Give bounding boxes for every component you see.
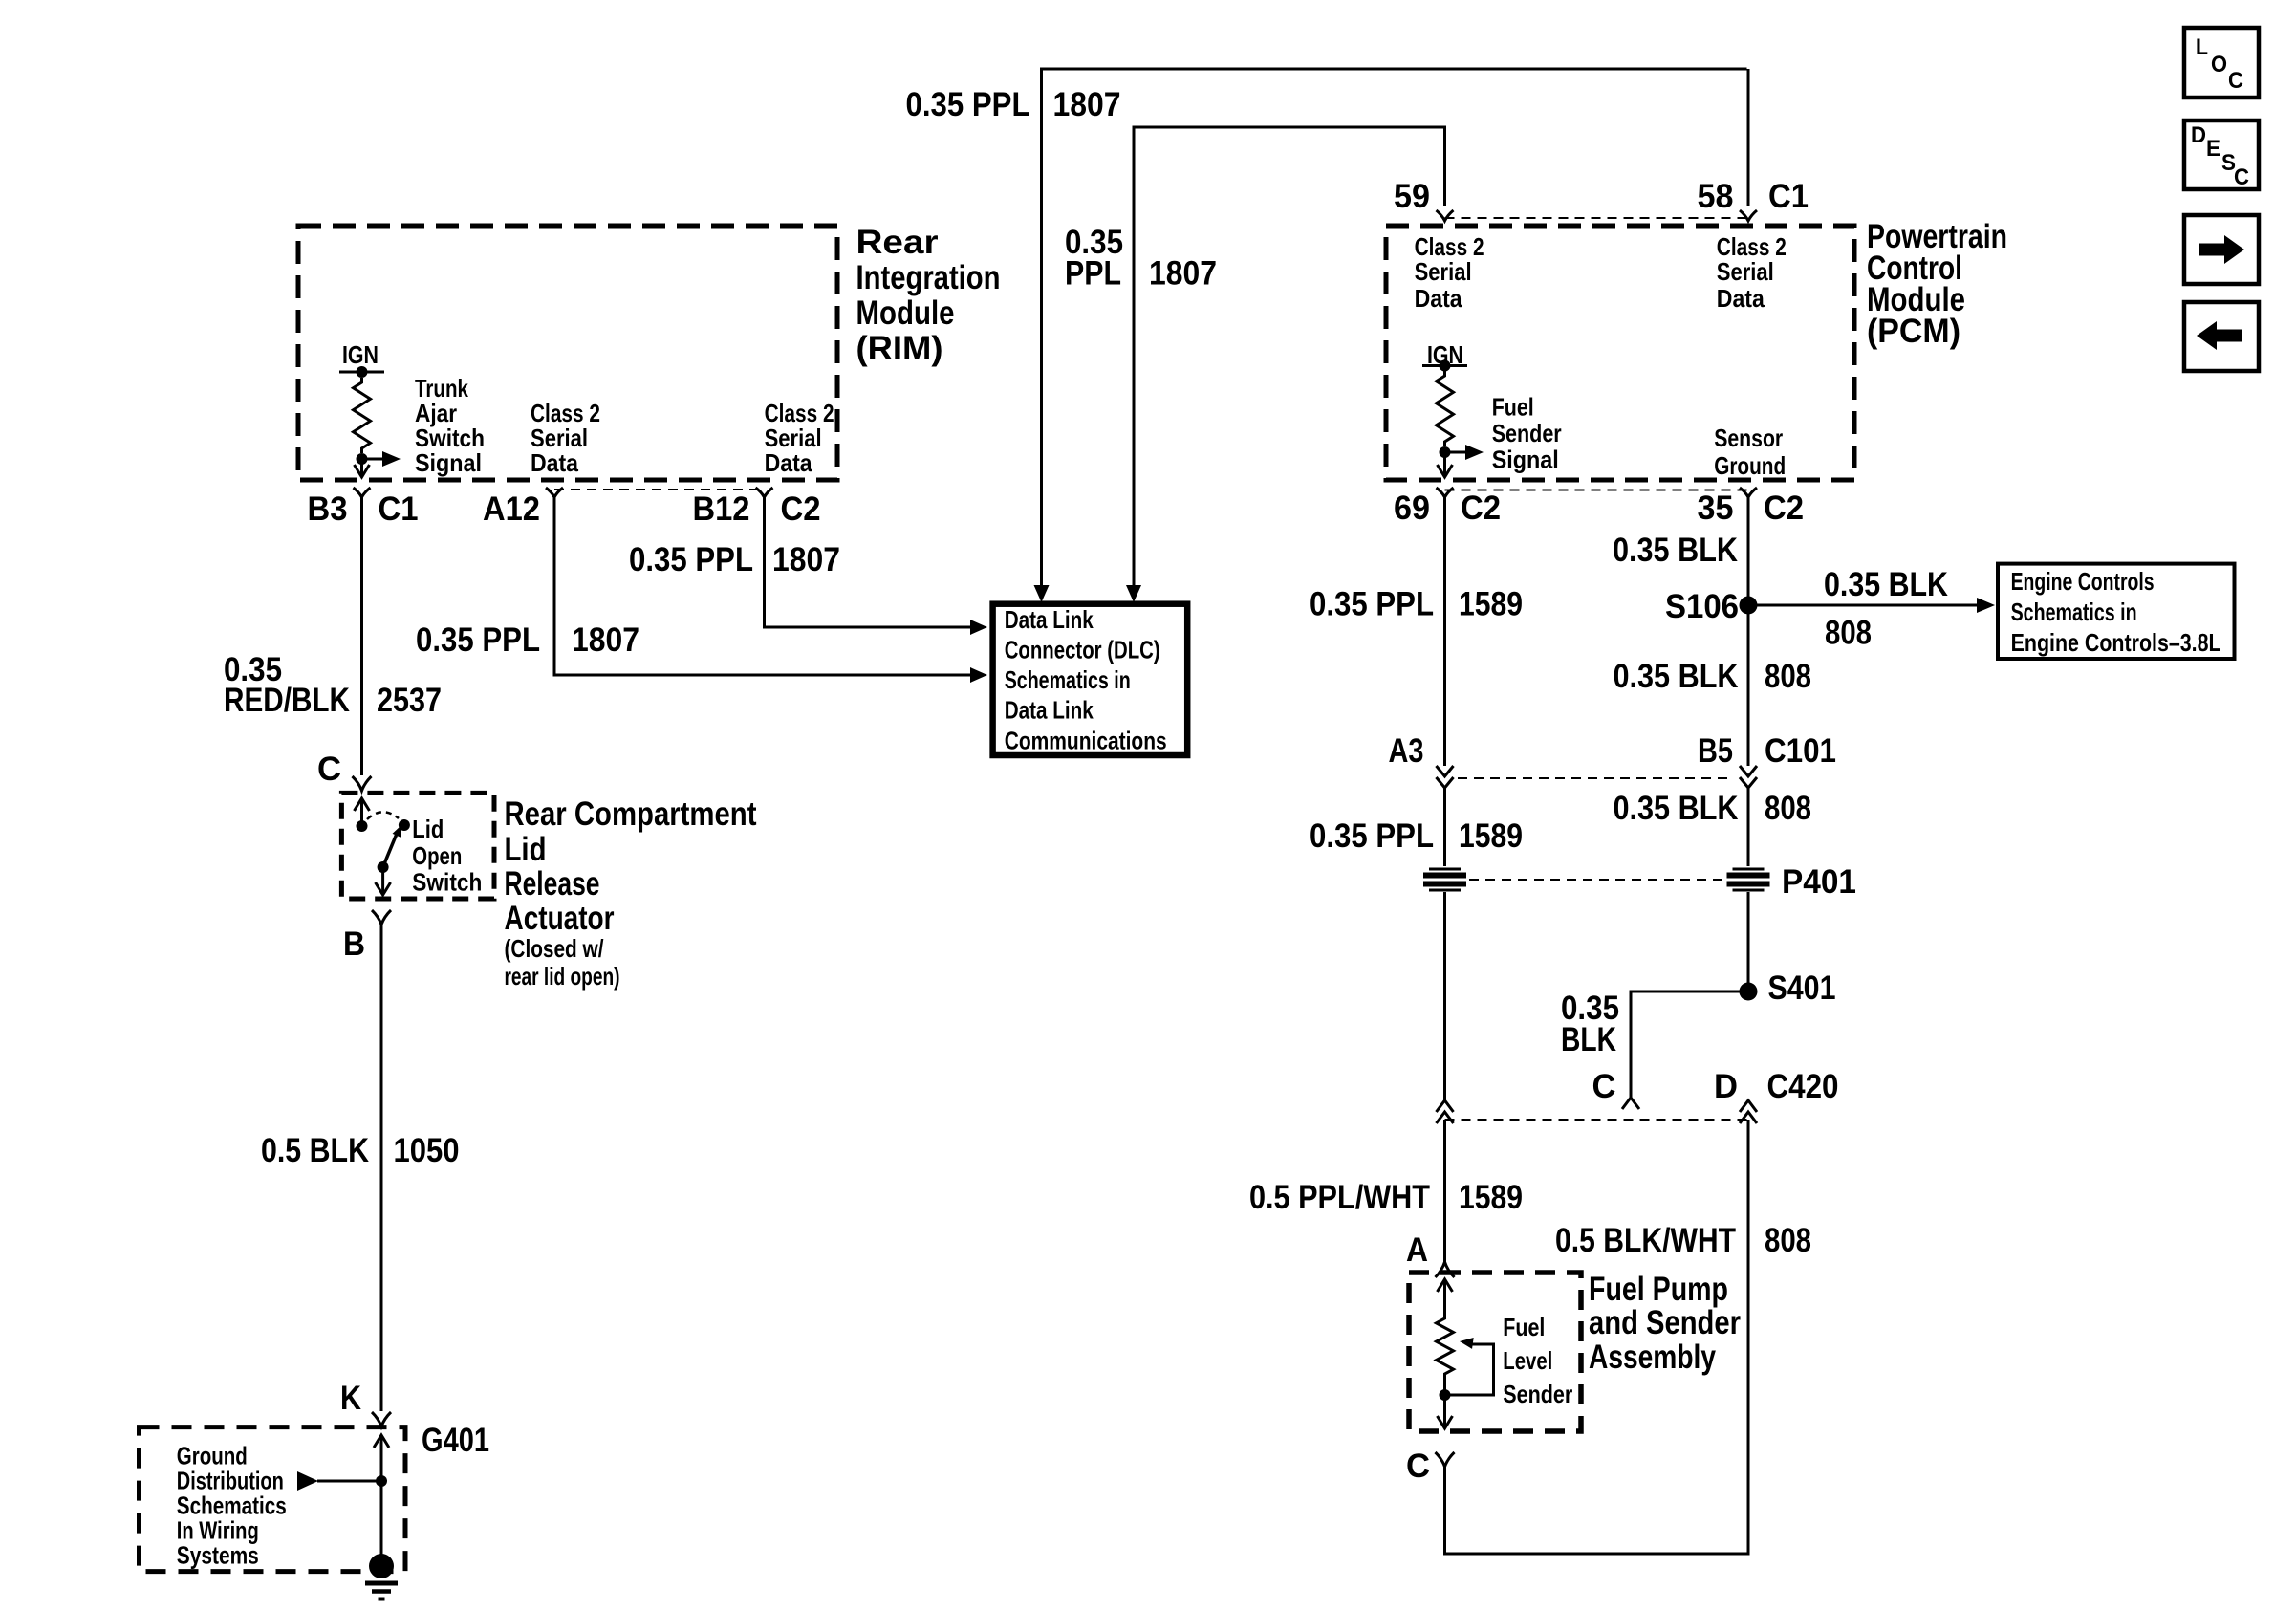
splice S401 dot xyxy=(1740,983,1758,1001)
connector terminal C (fuel pump) xyxy=(1436,1452,1455,1467)
svg-text:0.35 PPL: 0.35 PPL xyxy=(629,541,753,578)
svg-text:0.35 BLK: 0.35 BLK xyxy=(1614,790,1739,827)
svg-text:Serial: Serial xyxy=(1415,257,1472,286)
svg-text:Assembly: Assembly xyxy=(1589,1339,1716,1376)
svg-text:0.5 PPL/WHT: 0.5 PPL/WHT xyxy=(1249,1179,1430,1216)
svg-text:Schematics in: Schematics in xyxy=(2011,598,2137,626)
svg-text:Release: Release xyxy=(505,865,600,903)
wire 1807 from A12 to DLC xyxy=(554,497,971,675)
svg-text:C2: C2 xyxy=(1461,490,1501,527)
svg-text:0.35 PPL: 0.35 PPL xyxy=(1310,586,1434,623)
right arrow glyph xyxy=(2199,235,2244,264)
wire 808 P401 to S401 xyxy=(1747,892,1750,991)
svg-text:Signal: Signal xyxy=(1492,446,1559,474)
svg-text:Sender: Sender xyxy=(1492,419,1562,447)
grommet P401 (right) xyxy=(1727,869,1770,890)
svg-text:1589: 1589 xyxy=(1459,817,1523,855)
svg-text:Sender: Sender xyxy=(1503,1380,1572,1408)
svg-text:Data: Data xyxy=(1415,284,1462,313)
svg-text:1589: 1589 xyxy=(1459,586,1523,623)
label 0.35 BLK (S401 branch) xyxy=(1561,990,1619,1058)
svg-text:C101: C101 xyxy=(1765,732,1836,770)
svg-text:C1: C1 xyxy=(379,490,419,528)
svg-text:Ground: Ground xyxy=(1714,451,1786,480)
svg-text:Data Link: Data Link xyxy=(1005,605,1094,634)
label 0.5 PPL/WHT 1589 xyxy=(1249,1179,1523,1216)
label 0.35 PPL 1807 (top) xyxy=(906,86,1121,123)
svg-text:Communications: Communications xyxy=(1005,727,1167,755)
connector C420 pin C terminal xyxy=(1622,1098,1639,1109)
connector C1 pin 59 terminal xyxy=(1437,210,1454,221)
LOC legend box xyxy=(2184,28,2259,98)
DESC legend letters xyxy=(2191,122,2249,190)
svg-text:B3: B3 xyxy=(308,490,348,528)
DLC down arrowhead left xyxy=(1034,585,1050,602)
svg-text:(PCM): (PCM) xyxy=(1867,313,1960,350)
wire 1589 pin 69 to C101 xyxy=(1443,497,1446,766)
label 0.35 PPL 1589 (upper) xyxy=(1310,586,1523,623)
svg-text:Integration: Integration xyxy=(856,259,1001,296)
svg-text:Module: Module xyxy=(856,294,955,332)
engine controls arrowhead xyxy=(1977,598,1995,613)
resistor fuel sender pull-up xyxy=(1437,371,1454,446)
label 0.35 PPL 1807 (inner) xyxy=(1065,224,1217,293)
rear compartment lid release actuator box xyxy=(341,793,494,899)
C101 dashed tie line xyxy=(1458,777,1727,779)
wire 1589 C420 to fuel pump xyxy=(1443,1120,1446,1262)
fuel pump entry arrow xyxy=(1438,1279,1453,1314)
svg-text:0.35 PPL: 0.35 PPL xyxy=(906,86,1030,123)
RIM trunk ajar signal arrow xyxy=(362,451,401,467)
RIM module name label xyxy=(856,224,1001,367)
connector C101 pin A3 terminals xyxy=(1437,766,1454,788)
connector C2 pin 35 terminal xyxy=(1740,488,1757,497)
svg-text:Data Link: Data Link xyxy=(1005,696,1094,725)
RIM resistor lower junction dot xyxy=(357,453,368,465)
svg-text:C: C xyxy=(2234,164,2249,190)
svg-text:Fuel Pump: Fuel Pump xyxy=(1589,1271,1728,1308)
svg-text:Open: Open xyxy=(412,841,462,870)
svg-text:1807: 1807 xyxy=(1053,86,1121,123)
svg-text:Rear: Rear xyxy=(856,224,939,261)
svg-text:B12: B12 xyxy=(693,490,750,528)
resistor fuel level sender xyxy=(1437,1314,1454,1379)
svg-text:PPL: PPL xyxy=(1065,255,1121,293)
wire 808 S401 branch to C420 pin C xyxy=(1631,991,1748,1098)
PCM class 2 serial data text (58) xyxy=(1717,232,1787,313)
lid switch pivot dot xyxy=(378,861,389,873)
svg-text:Schematics in: Schematics in xyxy=(1005,665,1131,694)
svg-text:0.5 BLK/WHT: 0.5 BLK/WHT xyxy=(1555,1222,1736,1259)
svg-text:1807: 1807 xyxy=(572,621,639,659)
PCM fuel sender signal arrow xyxy=(1445,445,1484,460)
svg-text:808: 808 xyxy=(1825,615,1872,652)
wire 1589 P401 to C420 xyxy=(1443,892,1446,1100)
svg-text:C: C xyxy=(317,751,341,788)
svg-text:(Closed w/: (Closed w/ xyxy=(505,934,604,963)
connector C2 pin 69 terminal xyxy=(1437,488,1454,497)
svg-text:(RIM): (RIM) xyxy=(856,330,943,367)
svg-text:A: A xyxy=(1406,1231,1428,1269)
svg-text:G401: G401 xyxy=(422,1422,489,1459)
Powertrain Control Module (PCM) box xyxy=(1386,226,1854,480)
ground G401 symbol xyxy=(365,1554,398,1600)
DLC right arrowhead upper xyxy=(970,620,987,635)
label 0.35 BLK 808 (lower) xyxy=(1614,790,1812,827)
Rear Integration Module (RIM) box xyxy=(298,226,837,480)
svg-text:A12: A12 xyxy=(483,490,540,528)
svg-text:B5: B5 xyxy=(1698,732,1733,770)
svg-text:0.5 BLK: 0.5 BLK xyxy=(261,1132,369,1169)
RIM class 2 serial data text (A12) xyxy=(531,399,600,477)
svg-text:A3: A3 xyxy=(1389,732,1424,770)
svg-text:Lid: Lid xyxy=(505,831,547,868)
DLC reference text xyxy=(1005,605,1167,755)
splice S106 dot xyxy=(1740,597,1758,615)
svg-text:Serial: Serial xyxy=(1717,257,1774,286)
svg-text:C1: C1 xyxy=(1768,178,1809,215)
connector C1 pin A12 terminal xyxy=(546,488,563,497)
wire 1807 inner run xyxy=(1134,127,1445,585)
left arrow glyph xyxy=(2197,321,2242,350)
PCM wire to pin 69 with down arrow xyxy=(1438,452,1453,477)
svg-text:S401: S401 xyxy=(1768,969,1836,1007)
PCM class 2 serial data text (59) xyxy=(1415,232,1484,313)
fuel sender wiper xyxy=(1445,1336,1494,1395)
connector terminal B (actuator) xyxy=(372,910,391,925)
svg-text:D: D xyxy=(1714,1068,1738,1105)
svg-text:1807: 1807 xyxy=(1149,255,1217,293)
connector C420 pin A terminals xyxy=(1437,1100,1454,1123)
svg-text:35: 35 xyxy=(1698,490,1734,527)
DLC down arrowhead right xyxy=(1126,585,1141,602)
C420 dashed tie line xyxy=(1445,1119,1749,1121)
svg-text:808: 808 xyxy=(1765,658,1811,695)
lid switch exit arrow xyxy=(376,867,391,895)
G401 entry arrow xyxy=(374,1435,389,1566)
svg-text:L: L xyxy=(2196,34,2208,60)
Engine Controls reference box xyxy=(1998,564,2235,659)
connector C2 pin B12 terminal xyxy=(756,488,773,497)
svg-text:D: D xyxy=(2191,122,2206,148)
wire 808 S106 to C101 xyxy=(1747,605,1750,766)
svg-text:Level: Level xyxy=(1503,1346,1552,1375)
LOC legend letters xyxy=(2196,34,2243,94)
svg-text:808: 808 xyxy=(1765,790,1811,827)
svg-text:C: C xyxy=(2228,68,2243,94)
PCM IGN rail xyxy=(1422,364,1467,367)
connector terminal K xyxy=(372,1412,391,1426)
svg-text:Data: Data xyxy=(531,448,578,477)
P401 dashed tie line xyxy=(1469,879,1726,881)
DLC right arrowhead lower xyxy=(970,667,987,683)
Data Link Connector (DLC) reference box xyxy=(993,604,1188,755)
G401 junction dot xyxy=(376,1475,387,1487)
label 0.35 BLK 808 (upper) xyxy=(1614,658,1812,695)
svg-text:Rear Compartment: Rear Compartment xyxy=(505,795,757,833)
lid switch entry arrow xyxy=(355,798,370,825)
svg-text:1807: 1807 xyxy=(772,541,840,578)
svg-text:0.35 BLK: 0.35 BLK xyxy=(1614,658,1739,695)
grommet P401 (left) xyxy=(1423,869,1466,890)
fuel level sender text xyxy=(1503,1313,1572,1408)
connector terminal C (actuator) xyxy=(353,776,372,791)
svg-text:1050: 1050 xyxy=(394,1132,460,1169)
label 0.35 PPL 1807 (B12) xyxy=(629,541,840,578)
G401 ground distribution box xyxy=(140,1427,406,1572)
svg-text:Lid: Lid xyxy=(412,815,444,843)
svg-text:IGN: IGN xyxy=(342,340,379,369)
svg-text:69: 69 xyxy=(1394,490,1430,527)
connector C420 pin D terminals xyxy=(1740,1100,1757,1123)
svg-text:Fuel: Fuel xyxy=(1492,393,1534,422)
svg-text:C: C xyxy=(1406,1448,1430,1485)
svg-text:Data: Data xyxy=(765,448,812,477)
wire 808 pin 35 to S106 xyxy=(1747,497,1750,605)
svg-text:BLK: BLK xyxy=(1561,1021,1616,1058)
connector C1 pin B3 terminal xyxy=(354,488,371,497)
connector C1 pin 58 terminal xyxy=(1740,210,1757,221)
RIM IGN rail xyxy=(339,371,384,374)
label 0.35 PPL 1807 (A12) xyxy=(416,621,639,659)
DESC legend box xyxy=(2184,120,2259,189)
svg-text:2537: 2537 xyxy=(377,682,442,719)
svg-text:0.35 BLK: 0.35 BLK xyxy=(1824,566,1948,603)
G401 branch arrow from ground distribution xyxy=(297,1471,381,1491)
label 0.5 BLK 1050 xyxy=(261,1132,460,1169)
wire 2537 RIM pin B3 to C xyxy=(360,497,363,775)
svg-text:K: K xyxy=(340,1380,361,1417)
svg-text:Connector (DLC): Connector (DLC) xyxy=(1005,636,1160,664)
svg-text:and Sender: and Sender xyxy=(1589,1304,1741,1341)
RIM IGN junction dot xyxy=(357,366,368,378)
engine controls reference text xyxy=(2011,567,2221,657)
svg-text:RED/BLK: RED/BLK xyxy=(224,682,350,719)
RIM trunk ajar switch signal text xyxy=(415,374,485,477)
svg-text:Data: Data xyxy=(1717,284,1765,313)
lid switch blade xyxy=(383,823,406,867)
svg-text:Engine Controls: Engine Controls xyxy=(2011,567,2155,596)
wire 1050 B to G401 xyxy=(380,925,383,1411)
PCM C2 connector dashed tie line xyxy=(1445,490,1749,491)
svg-text:C420: C420 xyxy=(1767,1068,1839,1105)
svg-text:C2: C2 xyxy=(781,490,821,528)
label 0.35 RED/BLK 2537 xyxy=(224,651,442,719)
svg-text:rear lid open): rear lid open) xyxy=(505,962,620,991)
RIM wire to pin B3 with down arrow xyxy=(355,459,370,477)
fuel sender exit arrow xyxy=(1438,1379,1453,1428)
RIM connector dashed tie line xyxy=(554,489,765,490)
svg-text:0.35 BLK: 0.35 BLK xyxy=(1613,532,1738,569)
svg-text:Sensor: Sensor xyxy=(1714,424,1783,452)
PCM sensor ground text xyxy=(1714,424,1786,480)
svg-text:Fuel: Fuel xyxy=(1503,1313,1545,1341)
label 0.5 BLK/WHT 808 xyxy=(1555,1222,1811,1259)
svg-text:O: O xyxy=(2211,52,2227,77)
svg-text:C: C xyxy=(1592,1068,1616,1105)
svg-text:B: B xyxy=(343,925,365,963)
wire 808 C101 to P401 xyxy=(1747,788,1750,866)
fuel pump and sender assembly box xyxy=(1409,1273,1581,1431)
wire 1807 top run xyxy=(1042,69,1749,585)
svg-text:0.35 PPL: 0.35 PPL xyxy=(1310,817,1434,855)
svg-text:Signal: Signal xyxy=(415,448,482,477)
svg-text:Switch: Switch xyxy=(412,868,482,897)
PCM C1 connector dashed tie line xyxy=(1445,217,1749,219)
PCM fuel sender signal text xyxy=(1492,393,1562,474)
svg-text:1589: 1589 xyxy=(1459,1179,1523,1216)
PCM module name label xyxy=(1867,218,2007,350)
svg-text:S106: S106 xyxy=(1665,588,1739,625)
svg-text:Engine Controls–3.8L: Engine Controls–3.8L xyxy=(2011,628,2221,657)
PCM resistor lower junction dot xyxy=(1440,446,1451,458)
label 0.35 PPL 1589 (lower) xyxy=(1310,817,1523,855)
lid switch left contact dot xyxy=(357,820,368,832)
connector C101 pin B5 terminals xyxy=(1740,766,1757,788)
ground distribution reference text xyxy=(177,1442,287,1570)
left-arrow legend box xyxy=(2184,302,2259,371)
svg-text:C2: C2 xyxy=(1764,490,1804,527)
wire 808 C420 to fuel pump return xyxy=(1445,1120,1749,1554)
svg-text:P401: P401 xyxy=(1782,863,1856,901)
PCM IGN junction dot xyxy=(1440,360,1451,372)
svg-text:59: 59 xyxy=(1394,178,1430,215)
lid switch right contact dot xyxy=(399,819,410,831)
lid open switch text xyxy=(412,815,482,897)
wire 1589 C101 to P401 xyxy=(1443,788,1446,866)
resistor trunk-ajar-switch pull-up xyxy=(354,378,371,453)
fuel pump assembly name label xyxy=(1589,1271,1741,1376)
wire 808 S106 to engine controls xyxy=(1748,604,1978,607)
svg-text:Actuator: Actuator xyxy=(505,900,615,937)
actuator name label xyxy=(505,795,757,991)
svg-text:808: 808 xyxy=(1765,1222,1811,1259)
svg-text:0.35 PPL: 0.35 PPL xyxy=(416,621,540,659)
wire 1807 from B12 to DLC xyxy=(765,497,972,627)
right-arrow legend box xyxy=(2184,215,2259,284)
svg-text:Systems: Systems xyxy=(177,1541,259,1570)
fuel sender wiper junction dot xyxy=(1440,1389,1451,1401)
svg-text:58: 58 xyxy=(1698,178,1734,215)
connector terminal A (fuel pump) xyxy=(1436,1262,1455,1277)
RIM class 2 serial data text (B12) xyxy=(765,399,834,477)
svg-text:E: E xyxy=(2206,136,2220,162)
label 0.35 BLK 808 (branch) xyxy=(1824,566,1948,652)
lid switch travel arc xyxy=(367,812,399,819)
